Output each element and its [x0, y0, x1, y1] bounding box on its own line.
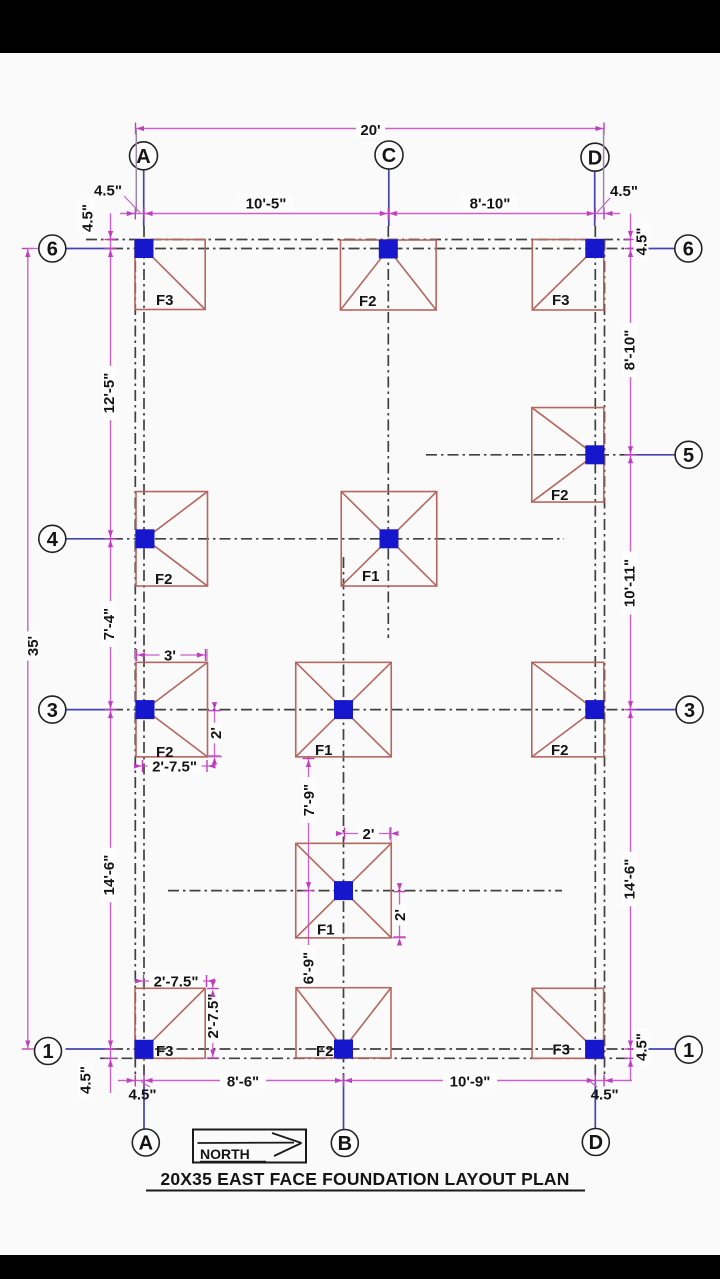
- svg-text:12'-5": 12'-5": [101, 373, 118, 414]
- svg-text:1: 1: [42, 1041, 53, 1063]
- svg-text:10'-9": 10'-9": [450, 1073, 491, 1090]
- svg-text:10'-11": 10'-11": [621, 559, 638, 607]
- svg-text:2': 2': [208, 727, 225, 739]
- svg-text:F2: F2: [359, 293, 377, 310]
- svg-text:14'-6": 14'-6": [101, 855, 118, 896]
- svg-text:20': 20': [360, 122, 380, 139]
- svg-text:4.5": 4.5": [591, 1087, 619, 1104]
- svg-text:F2: F2: [156, 744, 174, 761]
- svg-text:2'-7.5": 2'-7.5": [205, 994, 222, 1039]
- svg-text:20X35 EAST FACE FOUNDATION LAY: 20X35 EAST FACE FOUNDATION LAYOUT PLAN: [160, 1169, 569, 1189]
- svg-text:F3: F3: [553, 1042, 571, 1059]
- svg-text:F2: F2: [551, 487, 569, 504]
- svg-text:F1: F1: [317, 922, 335, 939]
- svg-text:A: A: [136, 146, 150, 168]
- svg-text:D: D: [588, 147, 602, 169]
- svg-text:F1: F1: [362, 568, 380, 585]
- svg-text:A: A: [139, 1133, 153, 1155]
- svg-text:B: B: [338, 1133, 352, 1155]
- svg-text:4.5": 4.5": [610, 183, 638, 200]
- svg-text:3: 3: [684, 700, 695, 722]
- svg-text:4.5": 4.5": [129, 1087, 157, 1104]
- svg-text:F2: F2: [316, 1043, 334, 1060]
- svg-text:4.5": 4.5": [633, 1033, 650, 1061]
- svg-text:10'-5": 10'-5": [246, 195, 287, 212]
- svg-text:F2: F2: [155, 571, 173, 588]
- svg-text:1: 1: [683, 1040, 694, 1062]
- svg-text:4.5": 4.5": [79, 204, 96, 232]
- svg-text:F2: F2: [551, 742, 569, 759]
- svg-text:8'-6": 8'-6": [227, 1073, 259, 1090]
- svg-text:6: 6: [683, 239, 694, 261]
- svg-text:35': 35': [25, 636, 42, 656]
- svg-text:7'-4": 7'-4": [101, 608, 118, 640]
- svg-text:F3: F3: [156, 1043, 174, 1060]
- svg-text:8'-10": 8'-10": [621, 330, 638, 371]
- svg-text:F3: F3: [552, 292, 570, 309]
- svg-text:6: 6: [47, 239, 58, 261]
- svg-text:6'-9": 6'-9": [300, 952, 317, 984]
- svg-text:D: D: [589, 1132, 603, 1154]
- svg-text:4.5": 4.5": [77, 1066, 94, 1094]
- svg-text:5: 5: [683, 445, 694, 467]
- svg-text:4: 4: [47, 529, 59, 551]
- svg-text:F1: F1: [315, 742, 333, 759]
- svg-text:8'-10": 8'-10": [470, 195, 511, 212]
- svg-text:F3: F3: [156, 292, 174, 309]
- svg-text:4.5": 4.5": [633, 228, 650, 256]
- svg-text:3: 3: [47, 700, 58, 722]
- svg-text:14'-6": 14'-6": [621, 859, 638, 900]
- svg-text:NORTH: NORTH: [200, 1146, 250, 1162]
- svg-text:4.5": 4.5": [94, 183, 122, 200]
- svg-text:7'-9": 7'-9": [301, 784, 318, 816]
- svg-text:C: C: [382, 145, 396, 167]
- svg-text:2': 2': [363, 826, 375, 843]
- svg-text:2': 2': [392, 909, 409, 921]
